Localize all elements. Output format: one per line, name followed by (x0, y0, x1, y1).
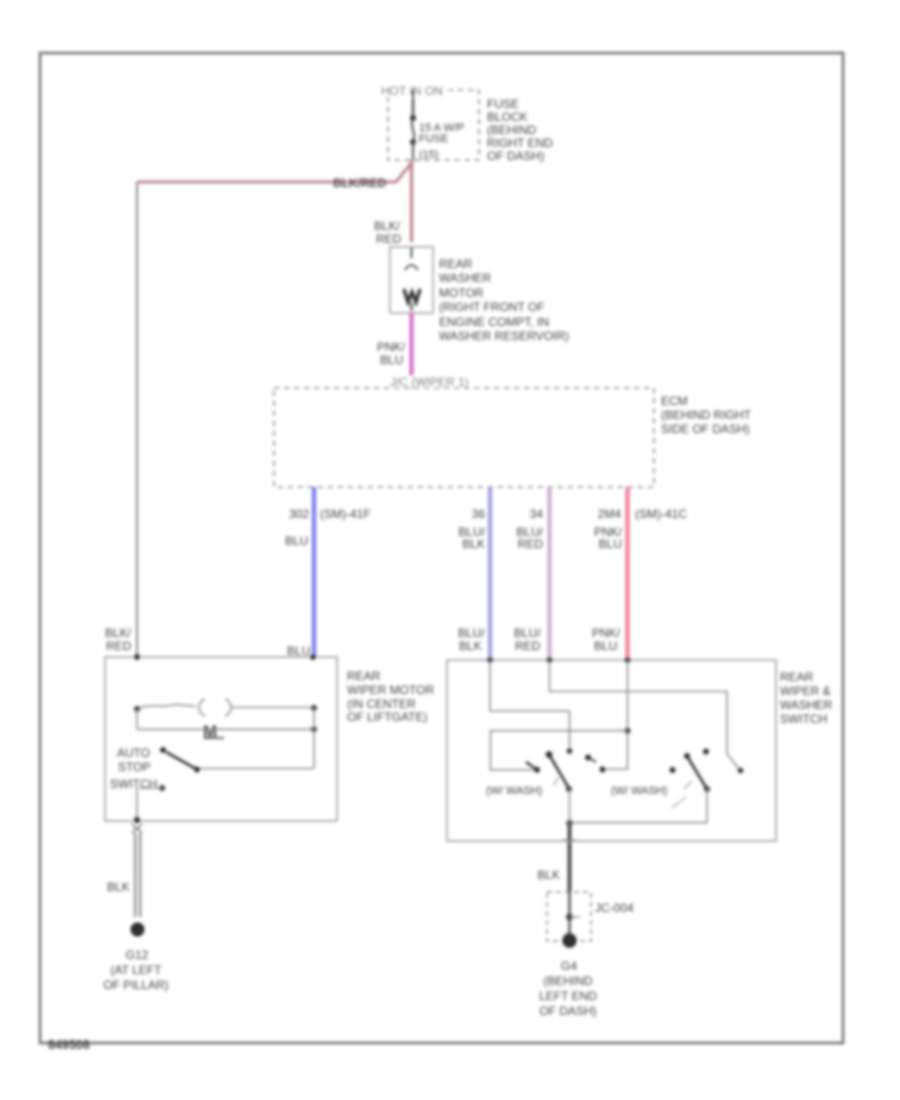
svg-text:FUSE: FUSE (419, 133, 448, 145)
node joint connector (566, 914, 573, 921)
joint connector JC dashed box (547, 892, 591, 941)
fuse F (15A) (410, 115, 416, 121)
svg-text:BLU: BLU (599, 537, 622, 551)
svg-text:(SM)-41C: (SM)-41C (635, 507, 687, 521)
svg-text:RED: RED (106, 639, 132, 653)
auto stop switch contact (159, 785, 165, 791)
wire BLK to ground (double line) (134, 833, 136, 917)
wire fuse feed (black) (412, 90, 414, 118)
svg-text:WASHER: WASHER (439, 271, 492, 285)
rear wiper motor box (105, 657, 337, 821)
wire motor rail 1 right (232, 707, 314, 709)
label J/C (WIPER) above module (388, 376, 476, 387)
svg-text:RED: RED (376, 232, 402, 246)
svg-text:(SM)-41F: (SM)-41F (320, 507, 371, 521)
svg-text:BLK: BLK (107, 880, 130, 894)
svg-text:PNK/: PNK/ (377, 340, 406, 354)
wire BLK/RED vertical from fuse (410, 160, 413, 242)
svg-text:OF LIFTGATE): OF LIFTGATE) (347, 710, 427, 724)
svg-text:REAR: REAR (780, 670, 814, 684)
wire blu/blk internal (490, 660, 570, 749)
svg-text:36: 36 (472, 507, 486, 521)
wire BLK below switch (568, 823, 572, 891)
node wiper motor feed junction (134, 654, 140, 660)
svg-text:RIGHT END: RIGHT END (487, 136, 553, 150)
svg-text:RED: RED (515, 639, 541, 653)
motor M1 brushes (199, 699, 205, 716)
detent tick (553, 777, 559, 786)
ground G12 (131, 923, 145, 937)
svg-text:JC-004: JC-004 (595, 901, 634, 915)
svg-text:REAR: REAR (439, 257, 473, 271)
washer motor W symbol (404, 289, 420, 302)
svg-text:(RIGHT FRONT OF: (RIGHT FRONT OF (439, 300, 545, 314)
wire arm to ground (569, 789, 571, 823)
svg-text:BLK/: BLK/ (105, 626, 132, 640)
svg-text:BLU/: BLU/ (458, 626, 485, 640)
wire BLU/RED (547, 487, 551, 660)
svg-text:(W/ WASH): (W/ WASH) (611, 785, 667, 797)
node entries (487, 657, 493, 663)
node blu entry (310, 654, 316, 660)
svg-text:BLK: BLK (537, 868, 560, 882)
node box exit (134, 817, 140, 823)
svg-text:OF DASH): OF DASH) (487, 149, 544, 163)
svg-text:ECM: ECM (661, 394, 688, 408)
svg-text:(BEHIND: (BEHIND (543, 974, 593, 988)
connector at box edge (564, 839, 575, 842)
svg-text:OF DASH): OF DASH) (539, 1004, 596, 1018)
svg-text:BLK: BLK (459, 639, 482, 653)
svg-text:BLU: BLU (287, 644, 310, 658)
svg-text:PNK/: PNK/ (592, 626, 621, 640)
svg-text:BLU: BLU (594, 639, 617, 653)
wire motor rail 1 (137, 704, 196, 709)
svg-text:2M4: 2M4 (598, 507, 622, 521)
rear wiper washer switch box (447, 660, 776, 841)
svg-text:849508: 849508 (48, 1038, 90, 1052)
svg-text:J/C (WIPER 1): J/C (WIPER 1) (390, 375, 469, 389)
wire to ground (in box) (136, 788, 138, 821)
auto stop switch arm (166, 752, 197, 770)
fuse block dashed box (388, 90, 479, 160)
svg-text:WIPER &: WIPER & (780, 684, 831, 698)
svg-text:(15): (15) (419, 149, 439, 161)
svg-text:BLK: BLK (462, 537, 485, 551)
svg-text:G12: G12 (126, 948, 149, 962)
wire left vertical gray (136, 182, 138, 657)
wire pnk/blu internal (603, 660, 628, 769)
wire PNK/BLU magenta (410, 313, 414, 388)
svg-text:G4: G4 (561, 959, 577, 973)
connector (below wiper motor) (132, 824, 142, 829)
svg-text:BLK/: BLK/ (374, 219, 401, 233)
svg-text:AUTO: AUTO (117, 746, 150, 760)
svg-text:SWITCH: SWITCH (780, 712, 827, 726)
washer switch contact (585, 755, 591, 761)
svg-text:MOTOR: MOTOR (439, 286, 484, 300)
washer motor connector pin (411, 247, 413, 258)
wire PNK/BLU (switch) (625, 487, 629, 660)
svg-text:BLOCK: BLOCK (487, 110, 528, 124)
svg-text:(BEHIND RIGHT: (BEHIND RIGHT (661, 408, 752, 422)
wire switch return (570, 789, 708, 822)
rear washer motor box (390, 247, 433, 313)
svg-text:(BEHIND: (BEHIND (487, 123, 537, 137)
svg-text:ENGINE COMPT, IN: ENGINE COMPT, IN (439, 315, 549, 329)
wire BLK/RED horizontal to left (137, 180, 397, 183)
wiper switch arm (right) (687, 756, 707, 789)
svg-text:FUSE: FUSE (487, 97, 519, 111)
wire BLU (to wiper motor) (312, 487, 316, 657)
ground G4 (562, 933, 576, 947)
wire branch to wash contact (491, 731, 628, 770)
svg-text:SWITCH: SWITCH (110, 777, 157, 791)
svg-text:REAR: REAR (347, 669, 381, 683)
svg-text:(W/ WASH): (W/ WASH) (486, 785, 542, 797)
module dashed box (274, 388, 654, 487)
svg-text:OF PILLAR): OF PILLAR) (103, 978, 168, 992)
svg-text:WIPER MOTOR: WIPER MOTOR (347, 683, 434, 697)
svg-text:WASHER: WASHER (780, 698, 833, 712)
wire motor rail 2 (137, 728, 314, 730)
svg-text:BLU: BLU (380, 353, 403, 367)
svg-text:302: 302 (289, 507, 309, 521)
svg-text:34: 34 (530, 507, 544, 521)
svg-text:BLU: BLU (285, 534, 308, 548)
svg-text:(IN CENTER: (IN CENTER (347, 697, 416, 711)
svg-text:SIDE OF DASH): SIDE OF DASH) (661, 422, 750, 436)
svg-text:WASHER RESERVOIR): WASHER RESERVOIR) (439, 329, 569, 343)
svg-text:LEFT END: LEFT END (539, 989, 597, 1003)
wire to auto stop switch (313, 708, 315, 769)
wire junction diagonal (396, 161, 413, 182)
wire blu/red internal (550, 660, 741, 770)
svg-text:STOP: STOP (118, 760, 150, 774)
wire BLU/BLK (488, 487, 492, 660)
svg-text:(AT LEFT: (AT LEFT (111, 963, 163, 977)
svg-text:RED: RED (518, 537, 544, 551)
detent ticks (684, 781, 692, 789)
svg-text:BLU/: BLU/ (514, 626, 541, 640)
svg-text:BLK/RED: BLK/RED (333, 176, 387, 190)
node ground junction (566, 820, 572, 826)
wiper switch arm (left) (549, 755, 569, 789)
